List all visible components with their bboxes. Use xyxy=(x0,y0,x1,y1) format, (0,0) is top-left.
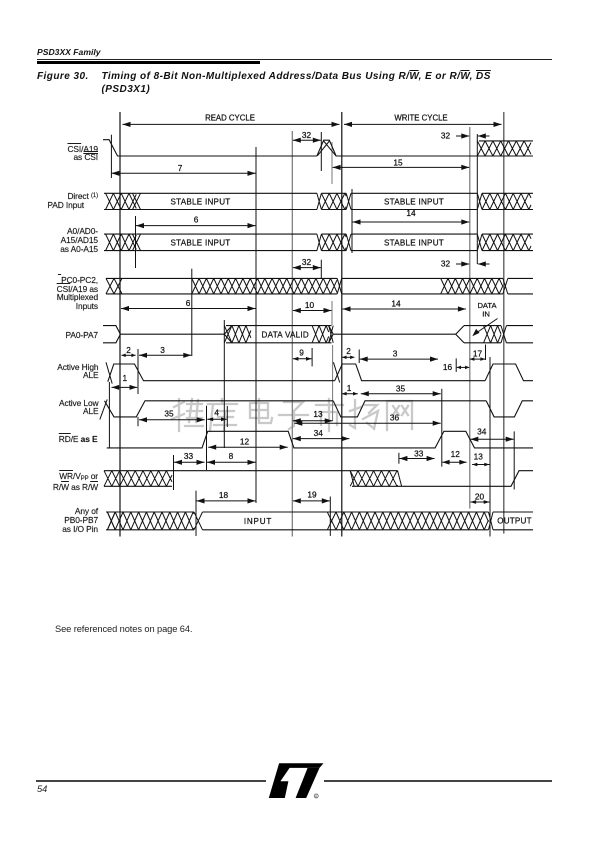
dimension arrow WRITE CYCLE span xyxy=(344,122,502,127)
label RD/E as E xyxy=(8,435,98,444)
wire PB output box xyxy=(493,512,533,530)
svg-text:15: 15 xyxy=(393,157,403,167)
dimension arrow 16 xyxy=(457,366,470,370)
wire ADDR stable box 2 xyxy=(351,234,477,251)
header thin rule xyxy=(37,59,552,60)
label Active High ALE xyxy=(9,363,99,381)
wire PA left converge xyxy=(103,326,120,343)
wire tick t1 (CSI fall) xyxy=(110,135,112,178)
wire tick t5b (x=332 mid) xyxy=(331,301,333,325)
svg-text:3: 3 xyxy=(160,345,165,355)
label WR/Vpp or R/W as R/W xyxy=(2,472,98,493)
wire PAD right hatch xyxy=(482,193,531,209)
svg-text:IN: IN xyxy=(482,310,490,319)
dimension arrow 32 right-top a xyxy=(456,133,469,138)
wire CSI hatch bottom rail xyxy=(477,155,533,157)
figure title xyxy=(37,69,567,71)
wire PB crossover a xyxy=(194,512,203,530)
wire tick t16 (dim 19 right) xyxy=(329,497,331,536)
wire WR low then rise xyxy=(402,471,533,487)
svg-text:4: 4 xyxy=(214,408,219,418)
wire PB input box xyxy=(203,512,328,530)
wire PC dense hatch 2 xyxy=(441,278,503,294)
wire CSI high-to-low xyxy=(103,140,317,156)
dimension arrow 36 xyxy=(294,421,440,426)
svg-text:READ CYCLE: READ CYCLE xyxy=(205,114,255,123)
wire PA mid line 1 xyxy=(120,333,224,335)
svg-text:7: 7 xyxy=(178,163,183,173)
wire tick t9 (dim 1 left) xyxy=(108,382,110,448)
dimension arrow 14 row2 xyxy=(353,219,470,224)
wire tick t11 (dim 18 left) xyxy=(195,491,197,536)
wire tick t22 (dim 34b right) xyxy=(513,431,515,489)
label PA0-PA7 xyxy=(8,331,98,340)
wire tick t18 (dim 35b/36/12b shared) xyxy=(441,389,443,467)
dimension arrow 9 xyxy=(293,357,312,361)
wire ADDR stable box 1 xyxy=(136,234,317,251)
dimension arrow 18 xyxy=(197,498,256,503)
footer rule right xyxy=(324,780,552,781)
dimension arrow 19 xyxy=(293,498,330,503)
dimension arrow 32 left-lower xyxy=(293,265,321,270)
wire tick t3 (dim 7/6/8/18 right) xyxy=(255,147,257,503)
wire ALEL cross serif xyxy=(100,399,107,419)
wire ALEH pulse3 xyxy=(485,364,533,381)
dimension arrow 3 left xyxy=(139,353,191,358)
logo ST xyxy=(264,757,324,800)
svg-text:13: 13 xyxy=(313,409,323,419)
wire RDE signal xyxy=(107,431,533,448)
svg-text:2: 2 xyxy=(346,346,351,356)
dimension arrow 12 left xyxy=(208,445,288,450)
svg-text:12: 12 xyxy=(451,449,461,459)
wire ADDR crossover b xyxy=(317,234,322,251)
wire PAD crossover d xyxy=(477,193,482,209)
note text xyxy=(55,624,192,634)
wire PA open rails right xyxy=(506,326,533,343)
wire ALEL dip1 and high xyxy=(105,401,334,417)
svg-text:19: 19 xyxy=(307,490,317,500)
wire tick t24 (dim 33b left) xyxy=(398,453,400,464)
wire ALEH cross serif 2 xyxy=(333,362,339,382)
svg-text:6: 6 xyxy=(186,298,191,308)
dimension arrow 17 xyxy=(470,357,485,361)
wire tick t6 (dim 14 left) xyxy=(351,189,353,253)
wire WR high line xyxy=(172,470,350,472)
svg-text:34: 34 xyxy=(314,428,324,438)
svg-text:34: 34 xyxy=(477,427,487,437)
wire PA converge b xyxy=(329,326,334,343)
wire ADDR crossover c xyxy=(346,234,351,251)
dimension arrow 14 row4 xyxy=(343,306,466,311)
svg-text:DATA: DATA xyxy=(477,301,497,310)
wire PA crossover d xyxy=(501,326,506,343)
dimension arrow 32 left-top xyxy=(293,138,321,143)
label A0/AD0-A15/AD15 as A0-A15 xyxy=(8,227,98,253)
svg-text:8: 8 xyxy=(229,451,234,461)
label Direct PAD Input xyxy=(8,192,98,201)
dimension arrow 6 row2 xyxy=(136,223,256,228)
wire tick t23 (dim 33 left) xyxy=(173,455,175,490)
dimension arrow 4 xyxy=(207,417,227,421)
wire ALEH pulse2 and low xyxy=(335,364,485,381)
svg-text:35: 35 xyxy=(164,409,174,419)
dimension arrow 32 right-lower a xyxy=(456,261,469,266)
wire PAD crossover b xyxy=(317,193,322,209)
wire ADDR crossover a xyxy=(133,234,141,251)
svg-text:STABLE INPUT: STABLE INPUT xyxy=(384,238,444,247)
dimension arrow 2 right xyxy=(342,356,354,360)
dimension arrow 10 xyxy=(293,308,332,313)
node T3 reference line (end of write cycle) xyxy=(503,112,505,534)
label Active Low ALE xyxy=(9,399,99,417)
svg-text:INPUT: INPUT xyxy=(244,517,272,526)
wire PC dense hatch 1 xyxy=(192,278,337,294)
wire PA hatch c xyxy=(484,326,501,343)
wire PB crossover b xyxy=(327,512,336,530)
wire PC crossover right xyxy=(503,278,508,294)
wire PA hatch b xyxy=(312,326,329,343)
label CSI/A19 as CSI xyxy=(8,145,98,163)
dimension arrow 32 right-top b xyxy=(478,133,490,138)
wire PB mid hatch xyxy=(336,512,489,530)
wire WR mid hatch xyxy=(350,471,397,487)
svg-text:33: 33 xyxy=(414,448,424,458)
wire PAD stable box 1 xyxy=(136,193,317,209)
wire PAD crossover c xyxy=(346,193,351,209)
svg-text:14: 14 xyxy=(391,299,401,309)
wire tick t2 (dim 6 left) xyxy=(135,216,137,268)
svg-text:20: 20 xyxy=(475,491,485,501)
wire PC crossover left b xyxy=(114,278,122,294)
svg-text:33: 33 xyxy=(184,451,194,461)
wire tick t8b (dim 35 left) xyxy=(137,417,139,426)
wire tick t8a (dim 2/3 boundary) xyxy=(137,349,139,394)
dimension arrow 20 xyxy=(470,500,489,504)
dimension arrow 12 right xyxy=(442,460,466,465)
dimension arrow 13 left xyxy=(293,418,333,423)
dimension arrow 32 right-lower b xyxy=(478,261,490,266)
wire tick t21 (x=490 long) xyxy=(489,357,491,537)
wire ADDR left hatch xyxy=(106,234,137,251)
wire ALEH pulse1 and low xyxy=(108,364,335,382)
wire tick t13 (data valid left ref) xyxy=(223,320,225,448)
wire CSI glitch pulse xyxy=(317,140,477,156)
svg-text:36: 36 xyxy=(390,413,400,423)
wire DATA IN pointer arrow xyxy=(472,319,497,337)
svg-text:6: 6 xyxy=(194,215,199,225)
wire tick t4a (dim 32 right upper) xyxy=(320,132,322,171)
label PC0-PC2 CSI/A19 as Multiplexed Inputs xyxy=(8,276,98,311)
wire CSI glitch cross xyxy=(318,141,336,156)
wire PA diverge c xyxy=(456,326,464,343)
node T2 reference line (read/write boundary) xyxy=(341,112,343,537)
wire PA hatch a xyxy=(232,326,251,343)
dimension arrow 1 left xyxy=(112,385,138,390)
svg-text:STABLE INPUT: STABLE INPUT xyxy=(171,198,231,207)
wire PA mid line 2 xyxy=(333,333,456,335)
wire WR hatch end diagonal xyxy=(398,471,402,487)
wire tick t4b (dim 32 right lower) xyxy=(320,260,322,278)
svg-text:13: 13 xyxy=(474,451,484,461)
svg-text:WRITE CYCLE: WRITE CYCLE xyxy=(394,114,447,123)
svg-text:12: 12 xyxy=(240,436,250,446)
wire PB crossover c xyxy=(489,512,494,530)
dimension arrow 33 left xyxy=(174,460,205,465)
wire CSI right hatch region xyxy=(477,141,531,156)
wire ADDR mid hatch xyxy=(321,234,346,251)
dimension arrow 35 right xyxy=(361,391,441,396)
wire tick t20 (dim 17 right) xyxy=(485,345,487,361)
svg-text:STABLE INPUT: STABLE INPUT xyxy=(384,198,444,207)
wire PAD mid hatch xyxy=(321,193,346,209)
wire PC open rails 1 xyxy=(106,278,192,294)
wire PC crossover mid xyxy=(337,278,342,294)
svg-text:32: 32 xyxy=(441,131,451,141)
node T1 reference line (start of read cycle) xyxy=(119,112,121,537)
dimension arrow 15 xyxy=(333,165,470,170)
svg-text:3: 3 xyxy=(393,349,398,359)
dimension arrow 33 right xyxy=(399,456,434,461)
svg-text:35: 35 xyxy=(396,383,406,393)
dimension arrow 35 left xyxy=(139,417,205,422)
dimension arrow 7 xyxy=(111,171,255,176)
wire tick t10 (dim 3 right) xyxy=(191,269,193,356)
svg-text:9: 9 xyxy=(299,348,304,358)
svg-text:1: 1 xyxy=(122,373,127,383)
dimension arrow READ CYCLE span xyxy=(123,122,340,127)
wire PB left hatch xyxy=(107,512,194,530)
svg-text:32: 32 xyxy=(302,257,312,267)
label Any of PB0-PB7 as I/O Pin xyxy=(8,507,98,533)
wire PA crossover a xyxy=(224,326,232,343)
wire tick t7 (dim 32 right pair) xyxy=(476,134,478,264)
wire tick t19 (dim 16 left) xyxy=(455,358,457,372)
wire ADDR crossover d xyxy=(477,234,482,251)
wire ALEL dip2 and high xyxy=(333,401,486,417)
wire PAD stable box 2 xyxy=(351,193,477,209)
wire tick t17 (dim 3b left) xyxy=(358,350,360,364)
wire PA diverge xyxy=(224,326,232,343)
wire ALEH cross serif 1 xyxy=(106,362,112,383)
dimension arrow 6 row4 xyxy=(121,306,256,311)
svg-text:32: 32 xyxy=(302,130,312,140)
header thick rule xyxy=(37,61,260,65)
dimension arrow 8 xyxy=(207,460,256,465)
wire PA data-in box xyxy=(464,326,501,343)
wire PB crossover far left xyxy=(107,512,115,530)
svg-text:STABLE INPUT: STABLE INPUT xyxy=(171,238,231,247)
wire PAD crossover a xyxy=(133,193,141,209)
svg-text:16: 16 xyxy=(443,362,453,372)
svg-text:1: 1 xyxy=(347,383,352,393)
dimension arrow 34 left xyxy=(293,436,350,441)
dimension arrow 2 left xyxy=(122,354,136,358)
wire tick t12 (dim 4 left / 8 left) xyxy=(206,406,208,470)
wire PC open rails 3 xyxy=(508,278,533,294)
dimension arrow 34 right xyxy=(470,437,513,442)
wire CSI hatch top rail xyxy=(479,140,533,142)
footer rule left xyxy=(36,780,266,781)
header text PSD3XX Family xyxy=(37,47,101,57)
svg-text:10: 10 xyxy=(305,300,315,310)
wire WR fall into hatch xyxy=(350,471,354,487)
dimension arrow 3 right xyxy=(360,357,438,362)
wire tick t5a (x=332 upper) xyxy=(331,142,333,184)
wire ADDR right hatch xyxy=(482,234,531,251)
svg-text:18: 18 xyxy=(219,490,229,500)
dimension arrow 1 mid xyxy=(342,392,358,396)
wire gray reference line B (x=470) xyxy=(469,127,471,509)
wire PC crossover left a xyxy=(106,278,114,294)
wire ALEL dip3 and high xyxy=(486,401,533,417)
wire tick t14 (dim 4 right) xyxy=(226,406,228,427)
wire PAD left hatch xyxy=(106,193,137,209)
svg-text:32: 32 xyxy=(441,259,451,269)
wire tick t5c (x=332 lower) xyxy=(332,345,334,421)
page number 54 xyxy=(37,784,47,794)
svg-text:17: 17 xyxy=(473,348,483,358)
wire gray reference line A (x=292) xyxy=(291,131,293,537)
svg-text:OUTPUT: OUTPUT xyxy=(497,516,531,525)
svg-text:2: 2 xyxy=(126,345,131,355)
svg-text:DATA VALID: DATA VALID xyxy=(262,330,309,339)
wire tick t15 (dim 9 right) xyxy=(311,348,313,366)
wire WR left hatch xyxy=(104,471,172,487)
wire PC open rails 2 xyxy=(342,278,441,294)
dimension arrow 13 right xyxy=(472,463,489,467)
svg-text:14: 14 xyxy=(406,208,416,218)
